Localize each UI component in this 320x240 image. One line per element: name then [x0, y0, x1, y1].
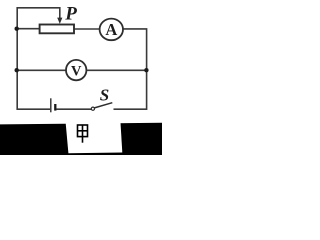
svg-text:S: S — [100, 85, 109, 104]
svg-text:P: P — [64, 3, 77, 24]
svg-text:V: V — [71, 64, 82, 80]
svg-text:A: A — [105, 20, 117, 39]
